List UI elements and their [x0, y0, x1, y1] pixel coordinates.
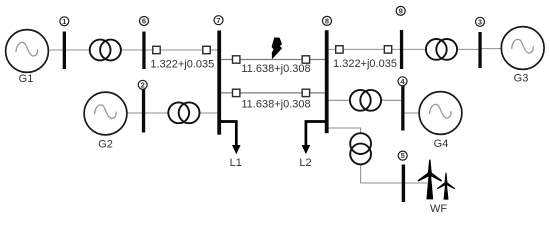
svg-text:6: 6 [142, 17, 146, 26]
svg-text:L1: L1 [230, 157, 242, 169]
svg-text:9: 9 [399, 7, 403, 16]
svg-text:11.638+j0.308: 11.638+j0.308 [241, 99, 310, 111]
svg-text:11.638+j0.308: 11.638+j0.308 [241, 63, 310, 75]
svg-text:8: 8 [325, 17, 329, 26]
svg-text:1.322+j0.035: 1.322+j0.035 [333, 58, 397, 70]
svg-text:G4: G4 [434, 138, 449, 150]
svg-text:G1: G1 [19, 73, 34, 85]
svg-text:L2: L2 [299, 157, 311, 169]
svg-text:3: 3 [478, 17, 482, 26]
svg-text:1.322+j0.035: 1.322+j0.035 [150, 59, 214, 71]
svg-text:G3: G3 [514, 73, 529, 85]
svg-text:2: 2 [141, 80, 145, 89]
svg-text:7: 7 [216, 16, 220, 25]
svg-text:G2: G2 [98, 139, 113, 151]
svg-text:1: 1 [62, 17, 66, 26]
svg-text:WF: WF [430, 203, 447, 215]
svg-text:5: 5 [401, 151, 405, 160]
